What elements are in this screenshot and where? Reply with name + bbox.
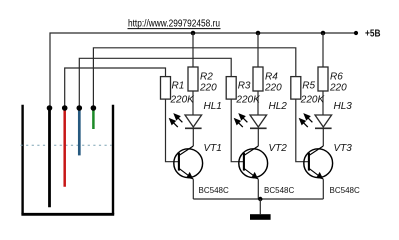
ground bbox=[250, 199, 271, 220]
svg-text:R3: R3 bbox=[238, 81, 251, 92]
wire HL2 to VT2 collector bbox=[257, 128, 259, 146]
wire blue electrode to R3 bbox=[79, 58, 231, 108]
water level dashed line bbox=[21, 144, 112, 146]
wire red electrode to R1 bbox=[65, 68, 166, 108]
LED HL3 bbox=[299, 101, 352, 128]
wire VT3 emitter to ground rail bbox=[322, 179, 324, 199]
transistor VT3 BC548C bbox=[304, 143, 360, 195]
wire VT1 emitter to ground rail bbox=[192, 179, 194, 199]
svg-text:HL1: HL1 bbox=[204, 101, 222, 112]
svg-text:220K: 220K bbox=[170, 95, 196, 106]
wire VT2 emitter to ground rail bbox=[257, 179, 259, 199]
resistor R2 220 bbox=[188, 67, 198, 91]
wire R1 to VT1 base bbox=[166, 99, 179, 162]
svg-text:VT2: VT2 bbox=[269, 143, 288, 154]
svg-text:BC548C: BC548C bbox=[330, 186, 360, 195]
svg-text:R1: R1 bbox=[172, 81, 185, 92]
svg-text:R5: R5 bbox=[302, 81, 315, 92]
svg-text:220: 220 bbox=[199, 83, 217, 94]
electrode green bbox=[92, 108, 95, 129]
node junction on +5V rail (stage 1) bbox=[191, 31, 196, 36]
svg-text:220: 220 bbox=[329, 83, 347, 94]
electrode red bbox=[63, 108, 66, 187]
resistor R3 220K bbox=[226, 77, 236, 100]
svg-text:R4: R4 bbox=[265, 72, 278, 83]
svg-text:220K: 220K bbox=[235, 95, 261, 106]
node junction at ground tap bbox=[258, 197, 262, 201]
wire rail to R6 bbox=[322, 33, 324, 67]
wire rail to R4 bbox=[257, 33, 259, 67]
wire +5V top rail bbox=[50, 33, 356, 108]
node +5V terminal bbox=[354, 31, 358, 35]
svg-text:BC548C: BC548C bbox=[264, 186, 294, 195]
LED HL2 bbox=[234, 101, 287, 128]
tank bbox=[21, 105, 114, 215]
svg-text:220: 220 bbox=[264, 83, 282, 94]
svg-text:R6: R6 bbox=[330, 72, 343, 83]
svg-text:http://www.299792458.ru: http://www.299792458.ru bbox=[128, 19, 220, 30]
svg-text:220K: 220K bbox=[300, 95, 326, 106]
wire R2 to LED HL1 bbox=[192, 91, 194, 115]
wire R3 to VT2 base bbox=[231, 99, 244, 162]
wire HL3 to VT3 collector bbox=[322, 128, 324, 146]
electrode black common bbox=[48, 108, 51, 207]
svg-text:BC548C: BC548C bbox=[199, 186, 229, 195]
resistor R1 220K bbox=[161, 77, 171, 100]
svg-text:HL2: HL2 bbox=[269, 101, 288, 112]
svg-text:VT3: VT3 bbox=[334, 143, 353, 154]
wire rail to R2 bbox=[192, 33, 194, 67]
svg-text:+5В: +5В bbox=[365, 29, 381, 40]
wire HL1 to VT1 collector bbox=[192, 128, 194, 146]
transistor VT2 BC548C bbox=[239, 143, 295, 195]
wire ground rail bbox=[193, 198, 323, 200]
wire green electrode to R5 bbox=[93, 48, 295, 108]
svg-text:R2: R2 bbox=[200, 72, 213, 83]
wire R5 to VT3 base bbox=[296, 99, 309, 162]
wire R4 to LED HL2 bbox=[257, 91, 259, 115]
resistor R4 220 bbox=[253, 67, 263, 91]
wire R6 to LED HL3 bbox=[322, 91, 324, 115]
electrode blue bbox=[78, 108, 81, 155]
transistor VT1 BC548C bbox=[174, 143, 229, 195]
LED HL1 bbox=[169, 101, 222, 128]
svg-text:VT1: VT1 bbox=[204, 143, 222, 154]
resistor R6 220 bbox=[318, 67, 328, 91]
svg-text:HL3: HL3 bbox=[334, 101, 353, 112]
resistor R5 220K bbox=[291, 77, 301, 100]
node junction on +5V rail (stage 2) bbox=[256, 31, 261, 36]
node junction on +5V rail (stage 3) bbox=[321, 31, 326, 36]
